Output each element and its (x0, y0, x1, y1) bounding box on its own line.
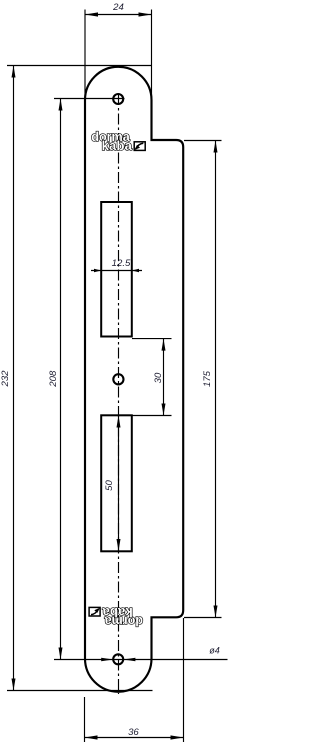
dimension 36 line and arrows (85, 737, 184, 739)
dimension 208 extension line (54, 98, 125, 100)
svg-text:208: 208 (48, 370, 59, 388)
dimension 175 extension lines (184, 140, 222, 142)
deadbolt cutout (lower rectangle) (101, 415, 132, 551)
svg-text:175: 175 (202, 370, 213, 387)
dimension 50 line and arrows (inside lower cutout) (118, 416, 120, 552)
dimension 175 line and arrows (215, 141, 217, 618)
dimension 30 extension lines (132, 338, 172, 340)
dimension 232 line and arrows (13, 66, 15, 691)
middle screw hole (113, 374, 123, 384)
dimension 12.5 line and arrows (91, 270, 142, 272)
svg-text:24: 24 (112, 2, 124, 13)
dimension 232 extension lines (7, 65, 152, 67)
latch cutout (upper rectangle) (101, 202, 132, 337)
top screw hole (113, 94, 123, 104)
dimension o4 arrows (101, 658, 113, 662)
svg-text:50: 50 (104, 480, 115, 491)
top logo marking (91, 130, 145, 153)
vertical centerline (dash-dot) (118, 94, 120, 694)
svg-text:36: 36 (128, 727, 139, 738)
bottom logo marking (rotated 180) (89, 605, 143, 628)
dimension o4 leader line (54, 659, 228, 661)
dimension 30 line and arrows (163, 339, 165, 416)
svg-text:30: 30 (153, 372, 164, 383)
dimension 36 extension lines (84, 697, 86, 742)
dimension 208 line and arrows (60, 99, 62, 660)
svg-text:232: 232 (0, 370, 11, 388)
svg-text:12.5: 12.5 (112, 258, 131, 269)
plate outline (85, 67, 183, 692)
dimension 24 line and arrows (85, 14, 152, 16)
bottom screw hole (113, 654, 123, 664)
dimension 24 extension lines (84, 10, 86, 100)
svg-text:ø4: ø4 (209, 646, 220, 656)
